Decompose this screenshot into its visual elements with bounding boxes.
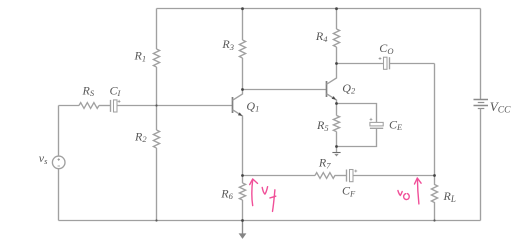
resistor RS: [79, 103, 99, 109]
resistor R4: [333, 29, 339, 47]
annotation text vo: [398, 191, 409, 200]
wire R3 branch: [242, 9, 244, 90]
label VCC: [490, 99, 511, 116]
wire emitter node to CE: [337, 104, 377, 123]
label RL: [443, 189, 456, 204]
wire bottom ground rail: [59, 220, 481, 222]
svg-text:R4: R4: [315, 29, 328, 44]
svg-text:vs: vs: [39, 151, 48, 166]
label R2: [134, 129, 147, 144]
source vs: [52, 156, 65, 169]
label Q2: [342, 81, 356, 96]
wire R2 branch: [156, 106, 158, 221]
transistor Q2: [327, 64, 337, 104]
junction node output: [433, 174, 436, 177]
wire R4 branch: [336, 9, 338, 64]
junction node Q2 emitter: [335, 102, 338, 105]
label CF: [342, 184, 356, 199]
resistor R2: [153, 130, 159, 148]
junction node R4 top: [335, 7, 338, 10]
wire vs bottom lead: [58, 169, 60, 221]
wire VCC bottom: [480, 109, 482, 221]
junction node Q2 collector: [335, 62, 338, 65]
label R1: [134, 49, 147, 64]
label RS: [82, 83, 95, 98]
svg-text:CE: CE: [389, 117, 403, 132]
label R3: [221, 37, 234, 52]
capacitor CO: [379, 57, 390, 69]
label R4: [315, 29, 328, 44]
svg-text:R6: R6: [220, 186, 233, 201]
annotation arrow vo: [415, 178, 422, 204]
wire CO to output node: [390, 63, 435, 65]
junction node RL rail: [433, 219, 435, 221]
junction node Q1 collector: [241, 88, 244, 91]
label R7: [318, 156, 331, 171]
wire Q1 emitter down: [242, 118, 244, 176]
wire R5 top: [336, 104, 338, 116]
transistor Q1: [233, 90, 243, 119]
label CI: [110, 83, 122, 98]
capacitor CF: [347, 170, 358, 182]
resistor R6: [239, 183, 245, 200]
svg-text:R5: R5: [316, 118, 329, 133]
svg-text:CF: CF: [342, 184, 356, 199]
label CE: [389, 117, 403, 132]
svg-text:Q1: Q1: [246, 99, 259, 114]
junction node R6 rail: [241, 219, 244, 222]
svg-text:R3: R3: [221, 37, 234, 52]
annotation text vf: [262, 187, 276, 212]
wire R6 top: [242, 176, 244, 184]
capacitor CE: [370, 118, 384, 128]
junction node Q1 base: [155, 104, 157, 106]
wire Rs to C1: [99, 105, 111, 107]
svg-text:CO: CO: [379, 41, 393, 56]
resistor R7: [315, 173, 335, 179]
wire R5 bottom: [336, 132, 338, 147]
junction node R3 top: [241, 7, 244, 10]
label Q1: [246, 99, 259, 114]
annotation arrow vf: [250, 179, 258, 206]
wire Q1 collector to Q2 base: [243, 89, 327, 91]
resistor RL: [431, 176, 437, 221]
label R5: [316, 118, 329, 133]
svg-text:CI: CI: [110, 83, 122, 98]
wire C1 to base node: [117, 105, 157, 107]
resistor R1: [153, 49, 159, 67]
battery VCC: [474, 100, 489, 109]
junction node R2 rail: [155, 219, 157, 221]
resistor R3: [239, 40, 245, 58]
svg-text:Q2: Q2: [342, 81, 356, 96]
ground at R5: [332, 147, 340, 157]
wire R7 to CF: [335, 175, 347, 177]
label CO: [379, 41, 393, 56]
label R6: [220, 186, 233, 201]
resistor R5: [333, 116, 339, 132]
wire vs to Rs: [59, 105, 80, 107]
svg-text:R7: R7: [318, 156, 331, 171]
junction node feedback left: [241, 174, 244, 177]
wire output vertical: [434, 64, 436, 176]
wire base node to Q1 base: [157, 105, 233, 107]
svg-text:R2: R2: [134, 129, 147, 144]
svg-text:R1: R1: [134, 49, 147, 64]
ground arrow below rail: [239, 221, 247, 239]
svg-text:VCC: VCC: [490, 99, 511, 116]
svg-text:RL: RL: [443, 189, 456, 204]
wire CF to output node: [353, 175, 435, 177]
wire R6 bottom: [242, 200, 244, 221]
wire R1 branch: [156, 9, 158, 106]
wire CE bottom: [337, 128, 377, 146]
wire Q2 collector to CO: [337, 63, 384, 65]
junction node R5 bottom: [335, 145, 338, 148]
capacitor CI: [111, 100, 121, 112]
svg-text:RS: RS: [82, 83, 95, 98]
wire VCC top: [480, 9, 482, 100]
wire top supply rail: [157, 8, 481, 10]
label vs: [39, 151, 48, 166]
wire vs top lead: [58, 106, 60, 157]
wire feedback R6 node to R7: [243, 175, 316, 177]
